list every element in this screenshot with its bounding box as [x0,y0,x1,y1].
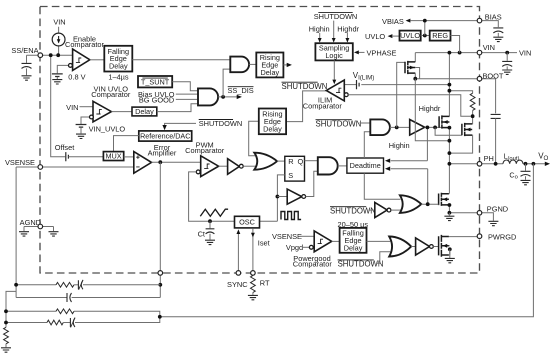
wire comp network line 1 [16,284,56,286]
resistor RT [251,276,256,293]
wire bootstrap FET source lead [414,73,416,79]
transistor Q3 (low-side FET) [439,193,449,206]
svg-text:Logic: Logic [325,51,343,60]
op-amp U_ilim (ILIM Comparator) [326,80,344,101]
junction (VIN to sense) [448,51,452,55]
wire PGND rail [449,212,477,214]
junction BOOT node [413,77,417,81]
wire Q5 drain to PWRGD pin [449,236,477,238]
AND gate U_and3 [370,119,390,135]
resistor R_sense [470,93,475,110]
block Reference/DAC [139,131,192,141]
arrowhead (VPHASE) [354,50,359,54]
svg-text:SHUTDOWN: SHUTDOWN [199,119,243,128]
wire RT to OSC [252,228,254,273]
junction (highdr to deadtime sense) [426,126,430,130]
bubble (powergood inverting input) [309,245,313,249]
arrowhead Deadtime input 2 [385,167,390,171]
svg-text:SHUTDOWN: SHUTDOWN [314,12,358,21]
wire SS/ENA node [27,55,73,63]
svg-text:SHUTDOWN: SHUTDOWN [316,119,362,128]
wire VBIAS to BIAS pin [410,20,477,22]
wire MUX to error amplifier [124,156,134,158]
svg-text:0.8 V: 0.8 V [68,72,85,81]
wire U_inv2 to AND2 [306,171,318,196]
svg-text:Offset: Offset [55,143,75,152]
junction (VIN to REG) [458,51,462,55]
ground (Q5) [445,258,455,262]
junction highin node [395,126,399,130]
junction (sense to ILIM) [471,114,475,118]
transistor Q5 (PWRGD open drain) [439,235,449,257]
op-amp U_enable (Enable Comparator) [73,49,90,70]
wire BIAS decoupling [482,21,498,28]
junction VSENSE rail line 1 [14,283,18,287]
AND gate U_and1 [230,57,249,73]
junction (UVLO-REG to VBIAS) [423,34,427,38]
wire Ct [209,221,211,228]
junction driver return [448,139,452,143]
sawtooth ramp symbol [200,209,228,216]
wire ILIM input to VILIM battery [344,84,356,86]
ground (soft-start cap) [22,76,32,80]
wire enable comparator ref [57,65,68,73]
wire Vpgd to powergood comparator [302,246,309,248]
wire Q3 drain [448,193,451,195]
wire VIN internal rail [415,52,477,54]
svg-text:VPHASE: VPHASE [367,48,397,57]
capacitor C_3 (line 4) [70,318,75,327]
junction clock node [276,195,280,199]
buffer U_pgbuf [416,238,430,255]
junction PGND node [448,211,452,215]
wire BG GOOD to AND gate [176,98,198,100]
arrowhead SS_DIS [237,95,242,99]
wire sampling logic to ILIM comparator [333,60,335,79]
wire SHUTDOWN to inverter U_inv3 [369,209,375,211]
wire VILIM battery to VIN sense [361,84,449,86]
junction (SS/ENA to offset) [49,53,53,57]
junction PH node [448,162,452,166]
wire BOOT rail [415,78,477,80]
wire Deadtime to OR3 [364,173,400,199]
wire Highin to sampling logic [319,33,321,38]
wire RED1 output [283,64,288,66]
ground (divider) [1,348,11,352]
junction (lowdr sense) [426,202,430,206]
bubble (PWM comparator ramp input) [196,170,200,174]
wire FED2 to OR4 [367,240,391,242]
wire VPHASE to sampling logic [358,51,364,53]
svg-text:Highin: Highin [389,141,410,150]
battery VIN_UVLO threshold [76,125,87,128]
wire Q5 source to ground [449,249,451,258]
arrowhead (Highin) [318,38,322,43]
arrowhead (sampling to ILIM) [332,80,336,85]
junction (VILIM to VIN) [448,83,452,87]
junction (SS/ENA to current source) [56,53,60,57]
wire powergood comp to FED2 [332,240,340,242]
wire highdr output [425,126,450,128]
svg-text:Reference/DAC: Reference/DAC [140,132,190,141]
capacitor (VIN input) [502,61,512,66]
block T_SUNT [138,76,172,87]
wire Q3 source [448,205,451,213]
wire AND3 to high driver [390,126,410,128]
wire BOOT external [482,79,496,114]
svg-text:PGND: PGND [487,204,508,213]
wire OR3 to Q3 gate [421,203,438,205]
op-amp U_uvlo (VIN UVLO Comparator) [93,101,111,122]
wire UVLO box to label [392,35,400,37]
pin COMP (unlabeled) [158,271,163,276]
AND gate U_ssdis (4-input) [198,88,218,105]
op-amp U_pwm (PWM Comparator) [201,156,219,177]
resistor R_3 (line 4) [47,320,63,325]
wire feedback from VO [160,164,533,317]
wire VSENSE rail down [15,167,17,298]
junction Ct node [208,219,212,223]
arrowhead (SHUTDOWN) [332,38,336,43]
wire FED1 to AND gate [132,59,230,61]
wire comp pin riser [159,162,161,270]
svg-text:PH: PH [484,154,494,163]
svg-text:SS_DIS: SS_DIS [227,86,253,95]
junction feedback tap [158,315,162,319]
pin VIN [477,50,482,55]
svg-text:Highdr: Highdr [419,104,441,113]
junction SS_DIS node [221,95,225,99]
resistor R_2 (bottom) [4,327,9,344]
svg-text:S: S [288,171,293,180]
block Sampling Logic [315,43,352,60]
svg-text:BIAS: BIAS [485,12,502,21]
wire Q1 source rail / PH node [448,116,450,193]
junction (output cap) [524,162,528,166]
wire ILIM sense input [348,95,471,117]
wire bootstrap FET body tie [415,68,419,79]
wire U_inv3 to OR3 [391,209,401,211]
inverter U_inv3 [375,202,387,217]
op-amp U_pg (Powergood Comparator) [314,231,332,252]
junction divider line 3 [4,309,8,313]
wire VIN to uvlo comparator [80,106,94,108]
delay block U_RED2 (Rising Edge Delay) [259,109,286,135]
wire OR4 to buffer [411,246,415,248]
wire comp network line 2 [16,297,66,299]
svg-text:VBIAS: VBIAS [382,17,404,26]
arrowhead (SYNC input) [236,229,240,234]
pin PH [477,162,482,167]
wire AND2 to Deadtime [338,165,347,167]
wire SHUTDOWN to Reference/DAC [165,123,196,126]
wire OR to latch R input [277,160,285,162]
wire SS_DIS to AND1 [223,69,230,97]
svg-text:SHUTDOWN: SHUTDOWN [330,206,376,215]
wire Q5 source tie [448,246,451,255]
wire inductor to VO [523,163,547,165]
svg-text:Highdr: Highdr [337,24,359,33]
wire SHUTDOWN to AND3 [360,122,371,124]
wire divider line 3 [6,310,56,312]
svg-text:Comparator: Comparator [91,90,131,99]
wire ramp to PWM comparator [189,172,235,221]
svg-text:UVLO: UVLO [365,32,385,41]
wire highdr to FET Q2 gate [435,127,462,135]
AND gate U_and2 [318,157,338,174]
wire VSENSE to powergood comparator [300,235,315,237]
svg-text:VSENSE: VSENSE [272,232,302,241]
wire lowdr sense to Deadtime [391,169,428,205]
junction Q5 source [448,247,452,251]
wire divider rail [6,291,16,327]
transistor Q4 (bootstrap switch) [405,61,415,74]
wire SHUTDOWN to sampling logic [333,21,335,39]
wire sense resistor to Q2 drain [472,110,474,124]
ground (VIN cap) [502,70,512,74]
wire PGND external ground [482,213,493,221]
svg-text:Comparator: Comparator [65,40,105,49]
junction Q3 source [448,203,452,207]
svg-text:VIN: VIN [53,18,65,27]
svg-text:Vpgd: Vpgd [286,243,303,252]
capacitor C_o [521,171,531,176]
svg-text:Delay: Delay [261,68,280,77]
block OSC [235,216,260,228]
ground (0.8 V ref) [52,80,62,84]
ground (output cap) [521,180,531,184]
arrowhead Deadtime input 1 [385,159,390,163]
ground (Ct) [205,240,215,244]
wire AGND [24,226,54,228]
svg-text:RT: RT [260,278,270,287]
svg-text:Delay: Delay [344,243,363,252]
wire ILIM output to RED2 [286,91,326,122]
svg-text:VSENSE: VSENSE [5,158,35,167]
wire Highdr to sampling logic [346,33,348,38]
wire AND1 to rising edge delay [249,63,256,65]
delay block U_RED1 (Rising Edge Delay) [256,53,283,78]
wire to sense resistor [449,91,472,94]
pin AGND [38,224,43,229]
junction (boot cap to PH) [494,162,498,166]
transistor Q2 (sense FET) [462,123,472,136]
pin BOOT [477,76,482,81]
wire error amp to PWM comparator [152,161,201,163]
current source (VIN) [52,33,65,46]
svg-text:Comparator: Comparator [303,101,343,110]
svg-text:SHUTDOWN: SHUTDOWN [338,260,384,269]
resistor R_z (line 1) [56,282,74,287]
OR gate U_or1 [254,153,277,170]
wire SS_DIS output [218,96,239,98]
block Deadtime [347,158,384,173]
delay block U_FED1 (Falling Edge Delay) [104,46,132,72]
junction error amp output [158,160,162,164]
wire highin to bootstrap FET gate [397,62,405,127]
svg-text:OSC: OSC [239,218,255,227]
battery V_ILIM [357,80,360,89]
wire current source to VIN [58,27,60,55]
buffer U_highdr (high-side driver) [410,120,425,136]
capacitor (BIAS decoupling) [493,28,503,33]
arrowhead RED1 output [287,63,292,67]
wire RED2 to OR gate [249,121,259,156]
square wave clock symbol [281,212,301,220]
svg-text:VIN: VIN [483,43,495,52]
op-amp U_erramp (Error Amplifier) [134,152,152,174]
wire Q2 source to PH rail [449,124,472,153]
pin SYNC [236,271,241,276]
svg-text:VIN: VIN [519,49,531,58]
wire to VBIAS line [424,21,426,36]
wire inverter to OR gate [243,165,256,167]
junction sense resistor tap [448,89,452,93]
delay block U_delay (Delay) [132,107,157,116]
svg-text:BG GOOD: BG GOOD [139,95,174,104]
svg-text:Delay: Delay [263,124,282,133]
block MUX [103,152,123,161]
transistor Q1 (high-side FET) [439,115,449,128]
bubble (U_pgbuf output) [430,245,434,249]
junction Q2 source [448,151,452,155]
junction comp line 1 [158,283,162,287]
junction (highdr to FET2 gate) [433,126,437,130]
wire divider line 4 [6,322,47,324]
pin BIAS [477,18,482,23]
wire S input to clock [277,175,284,221]
svg-text:Iset: Iset [258,239,270,248]
svg-text:MUX: MUX [105,152,121,161]
pin PGND [477,211,482,216]
wire VIN external [482,52,517,54]
ground (BIAS cap) [493,37,503,41]
pin PWRGD [477,234,482,239]
arrowhead into Reference/DAC [162,125,166,130]
wire PH to inductor [482,163,503,165]
junction divider line 4 [4,321,8,325]
wire T_SUNT to AND gate input 1 [172,82,198,91]
wire UVLO to REG [421,35,430,37]
wire Bias UVLO to AND gate [176,93,198,95]
bubble (enable comparator inverting input) [69,64,73,68]
ground (AGND left) [19,232,29,236]
pin VSENSE [38,165,43,170]
wire VIN sense branch [448,53,450,117]
wire PWM comp to inverter [219,165,228,167]
delay block U_FED2 (Falling Edge Delay) [340,228,367,253]
wire SS to offset [51,55,65,157]
wire to output cap [525,164,527,171]
svg-text:SS/ENA: SS/ENA [11,46,38,55]
wire PH to pin [449,163,477,165]
junction (VIN input cap) [505,51,509,55]
svg-text:SYNC: SYNC [227,280,248,289]
wire Deadtime to AND3 [364,132,370,158]
wire highdr sense to Deadtime [391,127,428,160]
svg-text:R: R [288,157,293,166]
svg-text:Highin: Highin [309,24,330,33]
svg-text:SHUTDOWN: SHUTDOWN [282,82,328,91]
bubble (inverter U_inv1 output) [239,164,243,168]
wire BOOT to driver rail [415,79,449,141]
svg-text:Ct: Ct [198,230,205,239]
wire VSENSE to error amplifier [16,166,134,168]
device boundary (dashed) [40,7,480,274]
arrowhead (UVLO) [388,34,393,38]
wire VIN to bootstrap FET drain [414,53,416,62]
wire offset to MUX [68,156,103,158]
block UVLO [400,31,421,41]
svg-text:1–4µs: 1–4µs [108,72,129,81]
ground (PGND) [488,221,498,225]
wire OSC clock output [259,220,277,222]
svg-text:REG: REG [432,31,448,40]
wire VIN cap [506,53,508,61]
wire latch Q to AND2 [305,160,318,162]
wire Reference/DAC to MUX [114,136,139,152]
wire enable comp to falling edge delay [90,59,105,61]
svg-text:Deadtime: Deadtime [350,161,381,170]
bubble (uvlo inverting input) [90,115,94,119]
svg-text:VIN_UVLO: VIN_UVLO [89,125,126,134]
arrowhead (VBIAS) [406,19,411,23]
OR gate U_or4 (powergood) [389,237,411,257]
svg-text:Delay: Delay [135,107,154,116]
resistor R_1 (line 3) [56,309,74,314]
battery Offset [66,152,69,161]
flip-flop U_latch (RS) [285,156,305,181]
inverter U_inv2 [287,189,302,204]
capacitor C_boot [491,114,501,118]
bubble (ILIM comparator input) [344,93,348,97]
junction VBIAS node [423,19,427,23]
pin SS/ENA [38,53,43,58]
OR gate U_or3 (low-side) [400,195,421,213]
svg-text:Amplifier: Amplifier [148,149,177,158]
wire Delay to AND gate input 4 [157,104,198,112]
wire uvlo comp to Delay [111,111,132,113]
arrowhead (Iset) [251,233,255,238]
capacitor C_p (line 2) [67,293,72,302]
wire uvlo comparator ref [81,117,90,124]
battery 0.8 V [52,74,63,77]
pin RT [251,271,256,276]
wire boot cap to PH [495,118,497,163]
svg-text:VIN: VIN [66,103,78,112]
svg-text:Comparator: Comparator [293,260,333,269]
arrowhead VO [545,162,550,166]
wire comp pin to network [159,275,161,297]
bubble (U_inv2 output) [302,195,306,199]
ground (AGND right) [49,232,59,236]
svg-text:UVLO: UVLO [400,31,420,40]
inductor L_out [503,160,523,164]
bubble (U_inv3 output) [387,208,391,212]
svg-text:Q: Q [298,157,304,166]
wire clock to inverter U_inv2 [277,196,287,198]
svg-text:T_SUNT: T_SUNT [141,77,170,86]
ground (RT) [248,295,258,299]
svg-text:Delay: Delay [109,62,128,71]
svg-text:PWRGD: PWRGD [488,232,516,241]
capacitor C_z (line 1) [78,280,83,289]
ground (uvlo ref) [76,134,86,138]
wire REG to VIN rail [451,36,460,53]
block REG [430,31,451,41]
soft-start capacitor [22,63,32,68]
wire SHUTDOWN to OR4 [376,252,390,264]
